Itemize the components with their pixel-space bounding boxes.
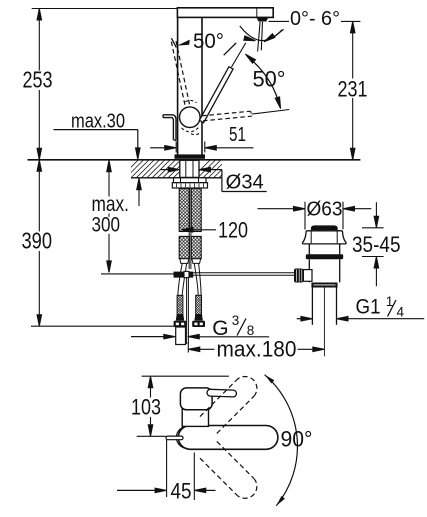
svg-text:231: 231 <box>338 77 368 102</box>
dimension diameter 63 (waste flange) <box>304 202 306 230</box>
svg-text:90°: 90° <box>281 427 313 452</box>
svg-text:253: 253 <box>23 67 53 93</box>
tick on lever axis <box>224 43 237 55</box>
pop-up rod vertical <box>188 188 190 269</box>
svg-text:120: 120 <box>218 218 248 243</box>
pop-up rod clamp <box>174 272 185 278</box>
dimension 51 (base width) <box>175 142 177 153</box>
lever, dashed raised-left position <box>176 40 190 104</box>
base plate <box>175 154 206 158</box>
bottom view: spout stadium <box>178 426 278 450</box>
dimension 45 <box>166 440 168 497</box>
dimension 103 <box>142 375 229 377</box>
svg-text:Ø63: Ø63 <box>307 198 343 220</box>
waste flange <box>306 230 342 232</box>
dimension max.180 <box>187 343 189 353</box>
bottom view: lever arm <box>207 389 237 397</box>
bottom view: cartridge housing <box>180 388 212 410</box>
G3/8 thread tail <box>176 327 186 345</box>
svg-text:Ø34: Ø34 <box>226 172 264 194</box>
threaded shank through counter <box>180 160 199 177</box>
aerator <box>257 18 269 22</box>
lever, solid mid position <box>199 67 233 123</box>
dimension G1 1/4 (tailpipe thread) <box>297 318 301 320</box>
horizontal rod to waste <box>193 272 294 274</box>
leader arrow from 0-6 label <box>273 29 284 38</box>
dimension 231 <box>352 21 354 159</box>
svg-text:35-45: 35-45 <box>352 232 401 257</box>
dimension G3/8 (hose thread) <box>131 336 165 338</box>
bottom view: body neck <box>182 409 208 427</box>
countertop surface line <box>28 159 361 161</box>
waste body <box>308 259 310 282</box>
lever, dashed lowered position <box>202 111 251 116</box>
axis extension of lowered lever <box>252 110 289 115</box>
rod knob (knurled) <box>294 269 303 283</box>
rubber seal ring <box>306 254 343 259</box>
washer <box>172 183 207 188</box>
hose end studs G3/8 <box>177 295 183 314</box>
dimension 390 <box>37 160 42 172</box>
dashed swivel position up <box>217 396 254 433</box>
extension line, spout top <box>32 8 178 10</box>
mounting nut <box>174 178 207 183</box>
deck thickness arrow from below <box>138 178 140 206</box>
dimension 35-45 (deck thickness at waste) <box>362 227 384 229</box>
spout (side view) <box>177 8 273 18</box>
reference line at aerator level <box>269 20 290 22</box>
ball joint <box>180 107 201 128</box>
waste plug cap <box>311 225 338 230</box>
svg-text:390: 390 <box>22 228 53 254</box>
50 degree label (lever swing to open) <box>245 54 255 63</box>
svg-text:3: 3 <box>232 313 240 328</box>
dimension 120 (hose leader) <box>181 228 193 233</box>
svg-text:50°: 50° <box>193 30 224 53</box>
waste centerline <box>323 288 325 357</box>
lever axis extension <box>232 43 246 67</box>
svg-text:45: 45 <box>171 478 192 503</box>
svg-text:51: 51 <box>229 124 246 146</box>
waste tailpipe G1 1/4 <box>311 288 313 325</box>
faucet body column <box>177 17 179 154</box>
svg-text:103: 103 <box>131 394 161 419</box>
svg-text:4: 4 <box>397 305 405 320</box>
svg-text:0°- 6°: 0°- 6° <box>290 8 340 30</box>
hose tails <box>178 263 182 295</box>
svg-text:50°: 50° <box>253 66 286 91</box>
waste locknut <box>311 283 337 288</box>
90 degree swivel arc <box>265 375 298 506</box>
dashed swivel position down <box>217 441 254 478</box>
tick at dashed lever end <box>171 38 176 47</box>
dashed arcs around ball <box>182 128 199 132</box>
0-6 degree adjustment arc <box>240 26 282 41</box>
bottom view: handle grip bar <box>166 436 183 440</box>
dimension diameter 34 (shank) <box>160 169 173 171</box>
dimension max.300 <box>108 160 110 273</box>
waste neck <box>308 244 310 254</box>
inner wall arc at left end <box>176 426 187 448</box>
countertop hatching <box>120 160 196 178</box>
handle grip (closed) <box>163 115 176 141</box>
rod reference line left <box>101 273 174 275</box>
dimension 253 <box>38 9 40 327</box>
water jet lines <box>258 22 261 52</box>
flexible connection hoses <box>179 188 189 231</box>
extension line, hose end level <box>31 325 175 327</box>
svg-text:300: 300 <box>92 214 121 237</box>
50 degree label (lever swing) <box>177 40 190 46</box>
svg-text:G1: G1 <box>356 296 381 319</box>
svg-text:max.180: max.180 <box>217 337 297 362</box>
countertop underside line <box>131 177 223 179</box>
